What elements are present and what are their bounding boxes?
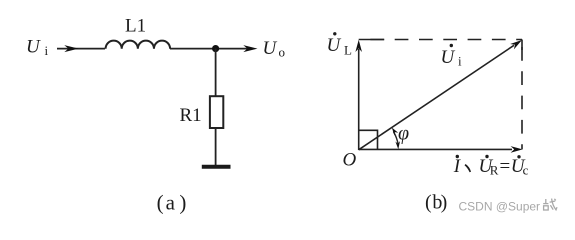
svg-text:i: i [45, 43, 49, 58]
svg-text:a: a [166, 191, 176, 215]
svg-text:CSDN @Super: CSDN @Super [459, 200, 541, 214]
svg-text:(: ( [157, 191, 164, 215]
svg-text:(: ( [425, 192, 432, 214]
svg-text:c: c [523, 163, 529, 178]
svg-text:U: U [26, 37, 41, 58]
svg-text:): ) [179, 191, 186, 215]
svg-text:i: i [458, 54, 462, 69]
svg-text:R1: R1 [180, 105, 202, 126]
svg-text:U: U [327, 35, 342, 56]
svg-text:U: U [263, 38, 278, 59]
svg-text:L1: L1 [125, 16, 146, 37]
svg-text:L: L [344, 43, 352, 58]
svg-text:=: = [500, 156, 511, 177]
svg-text:o: o [279, 45, 286, 60]
svg-text:): ) [441, 192, 448, 214]
svg-text:φ: φ [398, 123, 409, 145]
svg-text:I: I [453, 156, 462, 177]
svg-text:O: O [343, 150, 357, 171]
svg-text:U: U [441, 47, 456, 68]
svg-text:R: R [490, 163, 499, 178]
